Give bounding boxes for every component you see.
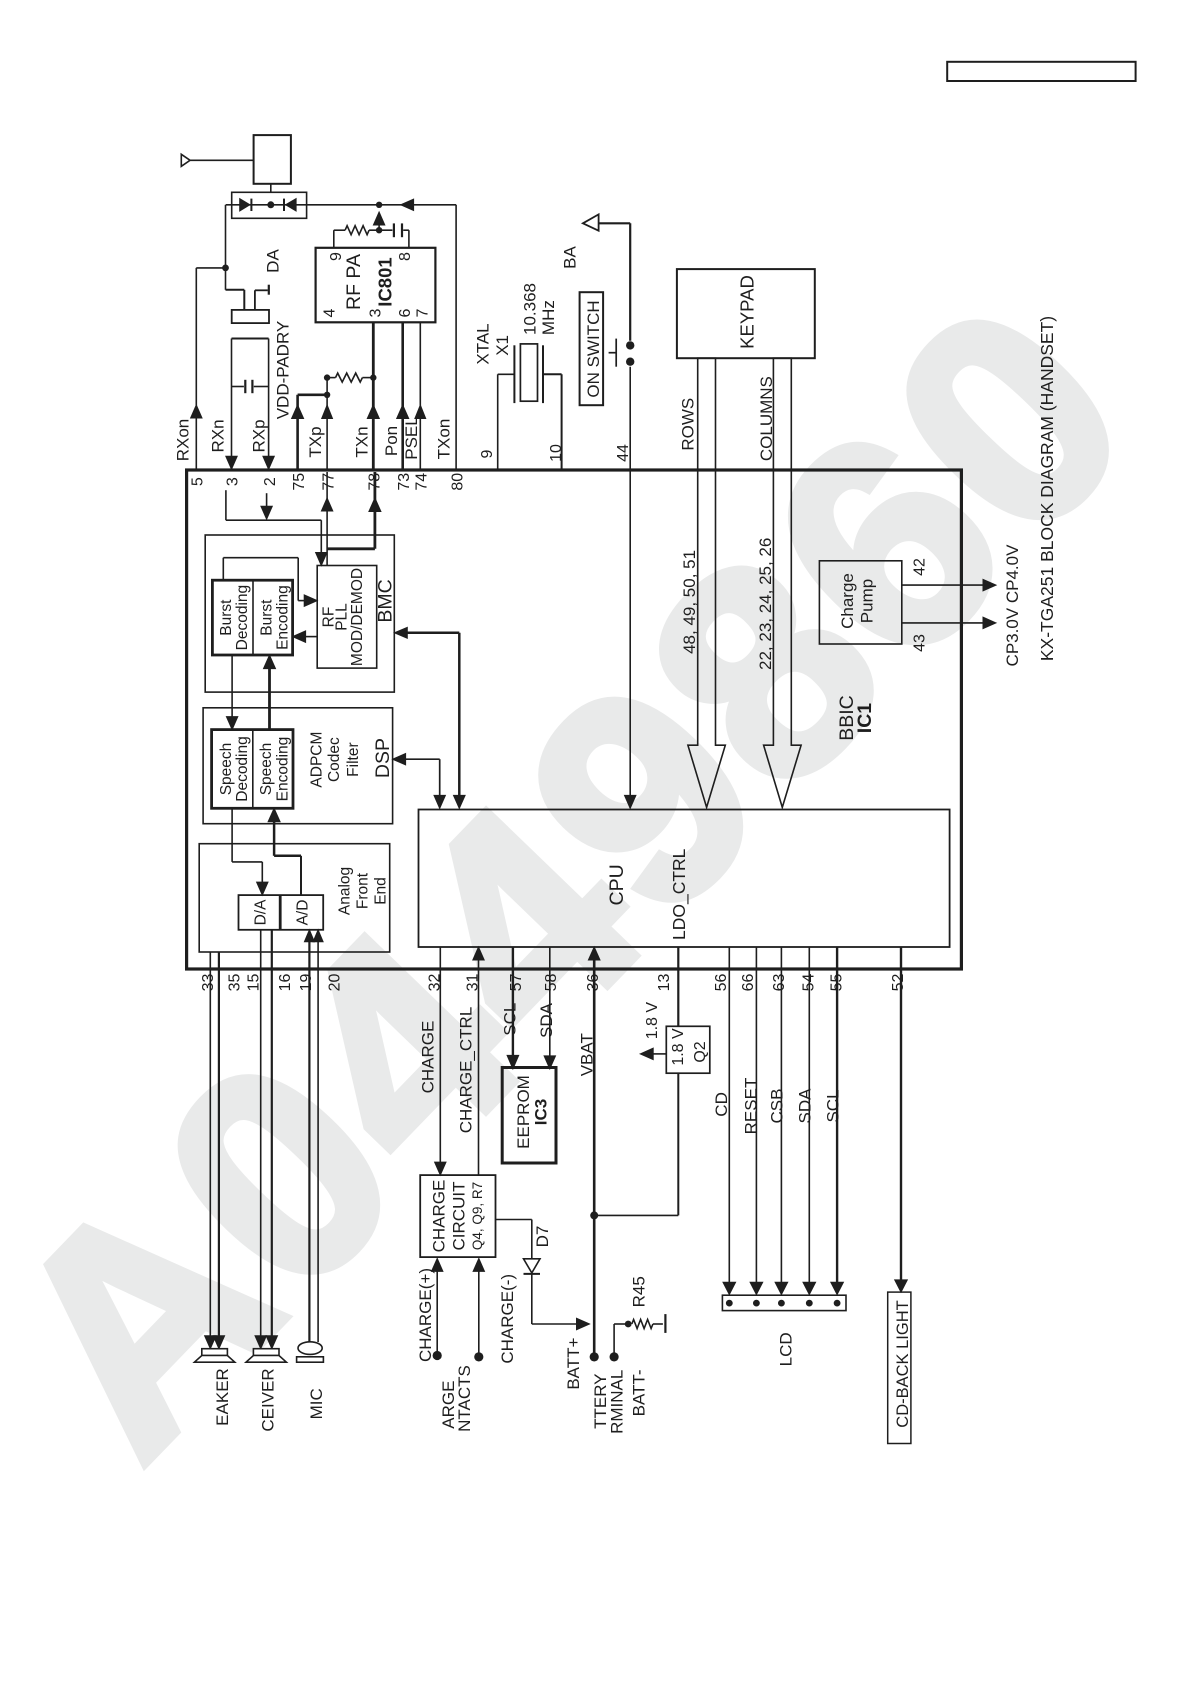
svg-text:BA: BA <box>561 246 580 269</box>
svg-text:Encoding: Encoding <box>274 737 291 802</box>
svg-text:ADPCM: ADPCM <box>308 732 325 788</box>
svg-text:SDA: SDA <box>796 1088 815 1124</box>
svg-text:48, 49, 50, 51: 48, 49, 50, 51 <box>680 550 699 654</box>
svg-text:EEPROM: EEPROM <box>514 1075 533 1149</box>
svg-text:Burst: Burst <box>218 599 235 636</box>
svg-text:R45: R45 <box>630 1276 649 1307</box>
svg-text:MHz: MHz <box>539 300 558 335</box>
svg-text:SCL: SCL <box>823 1089 842 1122</box>
svg-text:CHARGE: CHARGE <box>429 1180 448 1253</box>
svg-text:TXp: TXp <box>306 426 325 457</box>
svg-text:Charge: Charge <box>838 573 857 629</box>
svg-text:LCD: LCD <box>776 1332 795 1366</box>
svg-text:4: 4 <box>322 308 339 317</box>
svg-text:35: 35 <box>227 974 244 992</box>
svg-text:8: 8 <box>397 252 414 261</box>
svg-text:Q2: Q2 <box>692 1041 709 1062</box>
svg-text:74: 74 <box>414 473 431 491</box>
svg-text:KX-TGA251 BLOCK DIAGRAM (HANDS: KX-TGA251 BLOCK DIAGRAM (HANDSET) <box>1037 316 1057 661</box>
svg-text:SDA: SDA <box>537 1002 556 1038</box>
svg-text:10.368: 10.368 <box>521 283 540 335</box>
svg-text:56: 56 <box>713 974 730 992</box>
svg-text:CSB: CSB <box>768 1089 787 1124</box>
svg-text:80: 80 <box>450 473 467 491</box>
svg-text:Filter: Filter <box>345 742 362 776</box>
svg-text:CEIVER: CEIVER <box>259 1368 278 1431</box>
svg-text:Front: Front <box>355 872 372 909</box>
svg-text:Decoding: Decoding <box>234 736 251 802</box>
svg-text:Burst: Burst <box>259 599 276 636</box>
svg-text:RXp: RXp <box>250 419 269 452</box>
svg-text:57: 57 <box>508 974 525 992</box>
svg-text:75: 75 <box>291 473 308 491</box>
svg-text:X1: X1 <box>493 335 512 356</box>
svg-text:ON SWITCH: ON SWITCH <box>584 300 603 397</box>
svg-text:CHARGE_CTRL: CHARGE_CTRL <box>456 1007 475 1134</box>
svg-text:Pump: Pump <box>857 579 876 623</box>
svg-text:Speech: Speech <box>258 743 275 796</box>
svg-text:9: 9 <box>479 449 496 458</box>
svg-text:Q4, Q9, R7: Q4, Q9, R7 <box>470 1182 485 1250</box>
svg-text:KEYPAD: KEYPAD <box>737 275 758 349</box>
svg-text:End: End <box>373 877 390 905</box>
svg-text:RXon: RXon <box>173 419 192 462</box>
svg-text:MOD/DEMOD: MOD/DEMOD <box>349 568 366 666</box>
svg-text:CD: CD <box>712 1092 731 1117</box>
svg-text:TXn: TXn <box>352 426 371 457</box>
svg-text:5: 5 <box>190 477 207 486</box>
svg-text:VDD-PADRY: VDD-PADRY <box>274 321 293 420</box>
svg-text:COLUMNS: COLUMNS <box>757 376 776 461</box>
svg-text:58: 58 <box>543 974 560 992</box>
svg-text:D7: D7 <box>533 1226 552 1248</box>
svg-text:13: 13 <box>656 974 673 992</box>
svg-text:42: 42 <box>912 558 929 576</box>
svg-text:EAKER: EAKER <box>213 1368 232 1426</box>
svg-text:63: 63 <box>771 974 788 992</box>
svg-text:XTAL: XTAL <box>474 323 493 364</box>
svg-text:Encoding: Encoding <box>275 585 292 650</box>
svg-text:Analog: Analog <box>336 867 353 915</box>
svg-text:CP3.0V CP4.0V: CP3.0V CP4.0V <box>1003 544 1022 667</box>
svg-text:CHARGE(+): CHARGE(+) <box>416 1268 435 1362</box>
svg-text:73: 73 <box>396 473 413 491</box>
svg-text:22, 23, 24, 25, 26: 22, 23, 24, 25, 26 <box>756 538 775 670</box>
svg-text:1.8 V: 1.8 V <box>644 1002 661 1040</box>
svg-text:Speech: Speech <box>218 743 235 796</box>
svg-text:43: 43 <box>912 634 929 652</box>
svg-text:15: 15 <box>246 974 263 992</box>
svg-text:2: 2 <box>262 477 279 486</box>
svg-text:CPU: CPU <box>606 864 628 905</box>
svg-text:BATT-: BATT- <box>630 1369 649 1416</box>
svg-text:DA: DA <box>263 249 282 273</box>
svg-text:D/A: D/A <box>252 899 269 926</box>
svg-text:MIC: MIC <box>307 1388 326 1419</box>
svg-text:Decoding: Decoding <box>234 585 251 651</box>
svg-text:7: 7 <box>414 308 431 317</box>
svg-text:BMC: BMC <box>375 579 397 622</box>
svg-text:A/D: A/D <box>295 900 312 926</box>
svg-text:33: 33 <box>200 974 217 992</box>
svg-text:6: 6 <box>397 308 414 317</box>
svg-text:52: 52 <box>890 974 907 992</box>
svg-text:TXon: TXon <box>435 419 454 460</box>
svg-text:NTACTS: NTACTS <box>455 1365 474 1432</box>
svg-text:CIRCUIT: CIRCUIT <box>450 1182 469 1251</box>
svg-text:3: 3 <box>368 308 385 317</box>
svg-text:RESET: RESET <box>741 1078 760 1135</box>
svg-text:44: 44 <box>615 444 632 462</box>
svg-text:Codec: Codec <box>326 737 343 782</box>
svg-text:IC3: IC3 <box>532 1099 551 1125</box>
svg-text:3: 3 <box>225 477 242 486</box>
svg-text:Pon: Pon <box>382 426 401 456</box>
svg-text:77: 77 <box>320 473 337 491</box>
svg-text:RF PA: RF PA <box>343 254 365 310</box>
svg-text:20: 20 <box>326 974 343 992</box>
svg-text:CD-BACK LIGHT: CD-BACK LIGHT <box>894 1300 912 1427</box>
svg-text:PSEL: PSEL <box>402 416 421 459</box>
svg-text:ROWS: ROWS <box>678 398 697 451</box>
svg-text:VBAT: VBAT <box>577 1033 596 1076</box>
svg-text:PLL: PLL <box>333 603 350 631</box>
svg-text:CHARGE(-): CHARGE(-) <box>498 1274 517 1364</box>
svg-text:10: 10 <box>548 444 565 462</box>
svg-text:66: 66 <box>740 974 757 992</box>
svg-text:CHARGE: CHARGE <box>419 1021 438 1094</box>
svg-text:LDO_CTRL: LDO_CTRL <box>669 848 690 940</box>
svg-text:RMINAL: RMINAL <box>607 1370 626 1434</box>
svg-text:RXn: RXn <box>209 419 228 452</box>
svg-text:16: 16 <box>277 974 294 992</box>
svg-text:BATT+: BATT+ <box>564 1337 583 1389</box>
svg-text:IC801: IC801 <box>375 257 396 306</box>
svg-text:IC1: IC1 <box>854 703 876 734</box>
svg-text:19: 19 <box>298 974 315 992</box>
svg-text:SCL: SCL <box>501 1003 520 1036</box>
svg-text:DSP: DSP <box>372 738 394 778</box>
svg-text:1.8 V: 1.8 V <box>670 1028 687 1066</box>
